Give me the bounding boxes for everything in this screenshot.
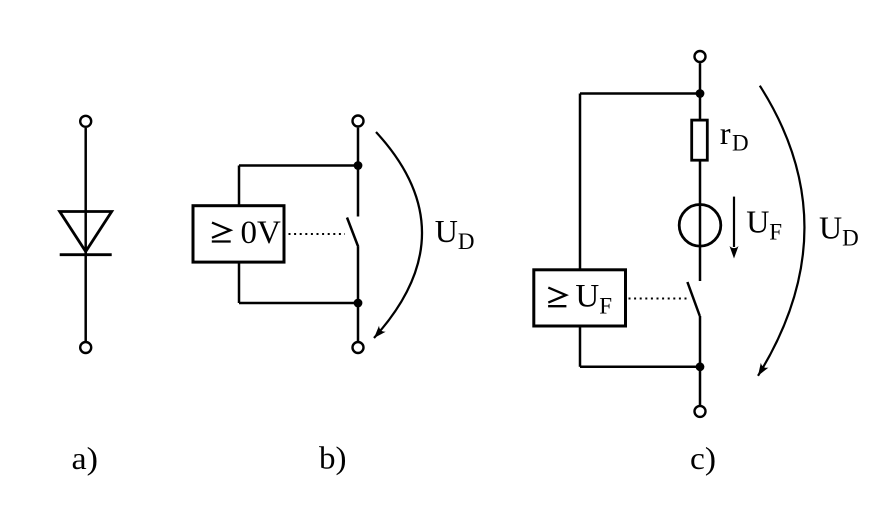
junction node top (part c) — [696, 89, 705, 98]
wire junction to comparator (horizontal) — [239, 164, 358, 167]
svg-text:0V: 0V — [241, 215, 282, 251]
switch S2 blade — [687, 282, 699, 316]
wire top terminal to resistor — [699, 63, 702, 120]
arrowhead of U_D arc (part b) — [371, 326, 386, 341]
junction node top (part b) — [354, 161, 363, 170]
wire junction to left rail (horizontal bottom) — [580, 366, 700, 369]
value label >= U_F (greater-equal sign drawn) — [548, 288, 566, 307]
terminal bottom (part c) — [695, 406, 706, 417]
wire comparator box bottom down — [238, 264, 241, 304]
wire resistor to switch (through source) — [699, 160, 702, 281]
svg-text:b): b) — [319, 440, 347, 476]
wire diode to cathode — [84, 252, 87, 342]
wire comparator box bottom to rail — [579, 328, 582, 367]
dotted control line (part b) — [289, 233, 346, 235]
comparator box (>= U_F) — [534, 270, 626, 326]
wire junction to left rail (horizontal top) — [580, 92, 700, 95]
wire left rail down to comparator box — [579, 94, 582, 270]
terminal anode (part a) — [80, 116, 91, 127]
wire anode to diode D — [84, 128, 87, 255]
voltage source U_F circle — [679, 205, 721, 247]
svg-text:c): c) — [690, 440, 716, 476]
terminal bottom (part b) — [353, 342, 364, 353]
arrowhead of U_D arc (part c) — [754, 363, 768, 378]
terminal cathode (part a) — [80, 342, 91, 353]
diode D cathode bar — [60, 253, 112, 256]
svg-text:UF: UF — [746, 204, 782, 245]
wire switch to bottom terminal — [357, 247, 360, 342]
value label >= 0V (greater-equal sign drawn) — [212, 223, 231, 242]
voltage arc U_D (part b) — [374, 132, 422, 338]
voltage arc U_D (part c) — [758, 86, 804, 376]
diode D triangle — [60, 212, 112, 252]
resistor r_D — [692, 120, 708, 160]
wire junction to comparator bottom (horizontal) — [239, 302, 358, 305]
wire switch to bottom (part c) — [699, 316, 702, 405]
junction node bottom (part c) — [696, 362, 705, 371]
dotted control line (part c) — [629, 298, 687, 300]
wire top terminal to switch S1 — [357, 128, 360, 217]
switch S1 blade — [347, 218, 358, 248]
wire down to comparator box — [238, 166, 241, 206]
svg-text:rD: rD — [720, 115, 749, 155]
arrowhead of U_F arrow — [730, 246, 739, 259]
terminal top (part c) — [695, 51, 706, 62]
svg-text:a): a) — [72, 440, 99, 476]
current direction arrow U_F — [733, 197, 735, 247]
comparator box (>= 0V) — [193, 206, 284, 262]
svg-text:UF: UF — [575, 278, 612, 318]
svg-text:UD: UD — [819, 209, 859, 250]
svg-text:UD: UD — [435, 213, 475, 254]
terminal top (part b) — [353, 116, 364, 127]
junction node bottom (part b) — [354, 299, 363, 308]
